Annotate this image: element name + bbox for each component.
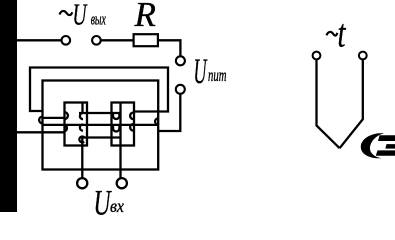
svg-text:U: U (73, 0, 89, 31)
terminal Uvyh left (62, 36, 71, 45)
bump right block 2 (113, 126, 119, 132)
core block right (112, 103, 135, 146)
page gutter black bar (0, 0, 17, 212)
svg-text:U: U (194, 51, 208, 91)
svg-text:вых: вых (91, 9, 106, 28)
inner winding loop (43, 81, 159, 170)
winding wire 3 to input (82, 138, 120, 179)
probe terminal left (313, 52, 321, 60)
resistor R (134, 34, 158, 46)
svg-text:пит: пит (208, 65, 227, 85)
left block top tap (81, 103, 83, 114)
bump right block 4 (130, 124, 133, 131)
bump right block 3 (130, 113, 133, 120)
probe body right (340, 59, 363, 148)
probe body left (317, 59, 340, 148)
hook at wire 3 turn (79, 137, 84, 143)
terminal Uvh right (117, 178, 127, 188)
hook left block right upper (80, 113, 83, 119)
wire B from bar (17, 131, 65, 133)
bump left block left upper (65, 112, 68, 119)
probe terminal right (359, 52, 367, 60)
wire Upit lower down-left (158, 94, 180, 131)
terminal Upit lower (176, 85, 185, 94)
bump left block left lower (65, 125, 67, 131)
svg-text:R: R (134, 0, 156, 34)
wire output left (17, 39, 61, 41)
publisher logo (361, 133, 395, 158)
wire resistor to Upit (158, 40, 181, 56)
outer winding loop (30, 68, 168, 112)
winding wire 2 (43, 124, 159, 126)
hook left block right lower (80, 125, 83, 131)
svg-text:t: t (338, 11, 347, 56)
label ~Uvyh tilde (60, 11, 73, 15)
bump right block 1 (113, 114, 119, 119)
svg-text:вх: вх (110, 196, 124, 216)
core block left (65, 103, 88, 146)
right block rail to input (119, 103, 121, 179)
terminal Uvh left (77, 178, 87, 188)
terminal Uvyh right (92, 36, 101, 45)
wire A left (43, 117, 65, 119)
terminal Upit upper (176, 56, 185, 65)
winding wire 1 (79, 112, 121, 114)
label ~t tilde (327, 32, 338, 36)
bump on left rail (39, 117, 42, 124)
wire to resistor (101, 39, 134, 41)
bump on right rail (155, 118, 158, 124)
